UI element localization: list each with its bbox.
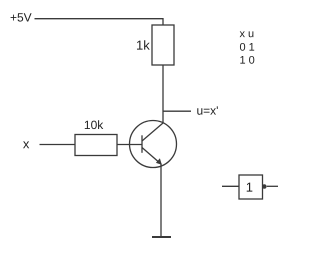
svg-text:u=x': u=x': [196, 104, 218, 118]
wire drop to R1 top: [162, 18, 164, 25]
ground: [152, 236, 171, 238]
svg-text:x u: x u: [239, 28, 254, 40]
svg-text:+5V: +5V: [10, 11, 32, 25]
logic gate U1 inversion bubble: [262, 184, 267, 189]
wire collector from R1: [162, 65, 164, 124]
resistor R1 body: [152, 25, 174, 65]
wire +5V rail horizontal: [35, 18, 164, 20]
node u=x' output wire: [163, 110, 191, 112]
resistor R2 body: [75, 135, 117, 156]
wire input x: [40, 144, 76, 146]
transistor Q1: [130, 121, 177, 168]
svg-text:1: 1: [246, 180, 253, 195]
logic gate U1 body: [239, 175, 263, 199]
svg-text:10k: 10k: [84, 118, 104, 132]
wire base: [117, 144, 142, 146]
svg-text:1k: 1k: [136, 38, 150, 53]
logic gate U1 input wire: [222, 185, 239, 187]
wire emitter: [160, 164, 162, 237]
svg-text:x: x: [23, 136, 30, 151]
svg-text:0 1: 0 1: [239, 42, 254, 54]
truth table: [239, 28, 254, 67]
svg-text:1 0: 1 0: [239, 55, 254, 67]
logic gate U1 output wire: [267, 185, 278, 187]
